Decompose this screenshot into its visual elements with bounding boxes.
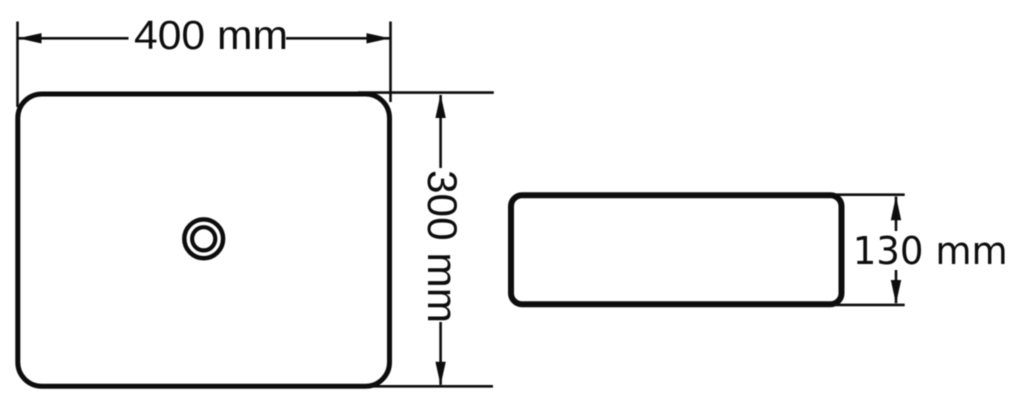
svg-text:130 mm: 130 mm xyxy=(853,229,1008,273)
svg-text:300 mm: 300 mm xyxy=(419,170,466,323)
svg-text:400 mm: 400 mm xyxy=(134,12,288,58)
